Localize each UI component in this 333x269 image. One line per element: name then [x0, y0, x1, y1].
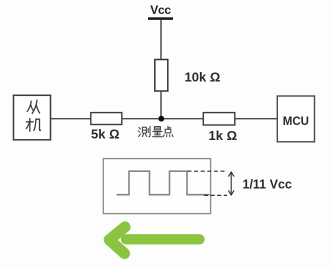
junction dot measurement node: [158, 116, 164, 122]
square wave trace: [117, 171, 210, 195]
wire R2 to measurement node: [122, 118, 204, 120]
svg-text:Vcc: Vcc: [150, 3, 171, 17]
dashed reference line top level: [188, 170, 228, 172]
resistor R2 body (5k series): [91, 113, 122, 125]
svg-text:MCU: MCU: [283, 116, 309, 128]
wire R3 to MCU: [235, 118, 277, 120]
green arrow chevron head: [109, 227, 125, 254]
slave device block 从机: [14, 95, 51, 140]
wire slave block to R2: [51, 118, 91, 120]
dashed reference line bottom level: [204, 194, 227, 196]
从机 character 从 (hand drawn): [27, 100, 39, 113]
wire R1 to measurement node: [160, 91, 162, 119]
node label 测量点 character 测 (hand drawn): [138, 126, 150, 137]
resistor R1 body (10k pull-up): [155, 60, 168, 92]
svg-text:5k Ω: 5k Ω: [91, 127, 120, 142]
resistor R3 body (1k series): [203, 113, 235, 125]
从机 character 机 (hand drawn): [26, 119, 40, 132]
node label 测量点 character 点 (hand drawn): [163, 126, 173, 137]
svg-text:1k Ω: 1k Ω: [209, 128, 238, 143]
waveform scope box: [103, 159, 210, 214]
MCU block: [277, 96, 314, 142]
node label 测量点 character 量 (hand drawn): [153, 127, 163, 137]
svg-text:1/11 Vcc: 1/11 Vcc: [243, 178, 292, 192]
Vcc power rail bar: [148, 17, 173, 20]
wire Vcc to R1: [160, 20, 162, 60]
green arrow shaft (signal direction): [126, 234, 200, 244]
dimension arrow 1/11 Vcc amplitude: [229, 172, 234, 195]
svg-text:10k Ω: 10k Ω: [185, 70, 221, 85]
